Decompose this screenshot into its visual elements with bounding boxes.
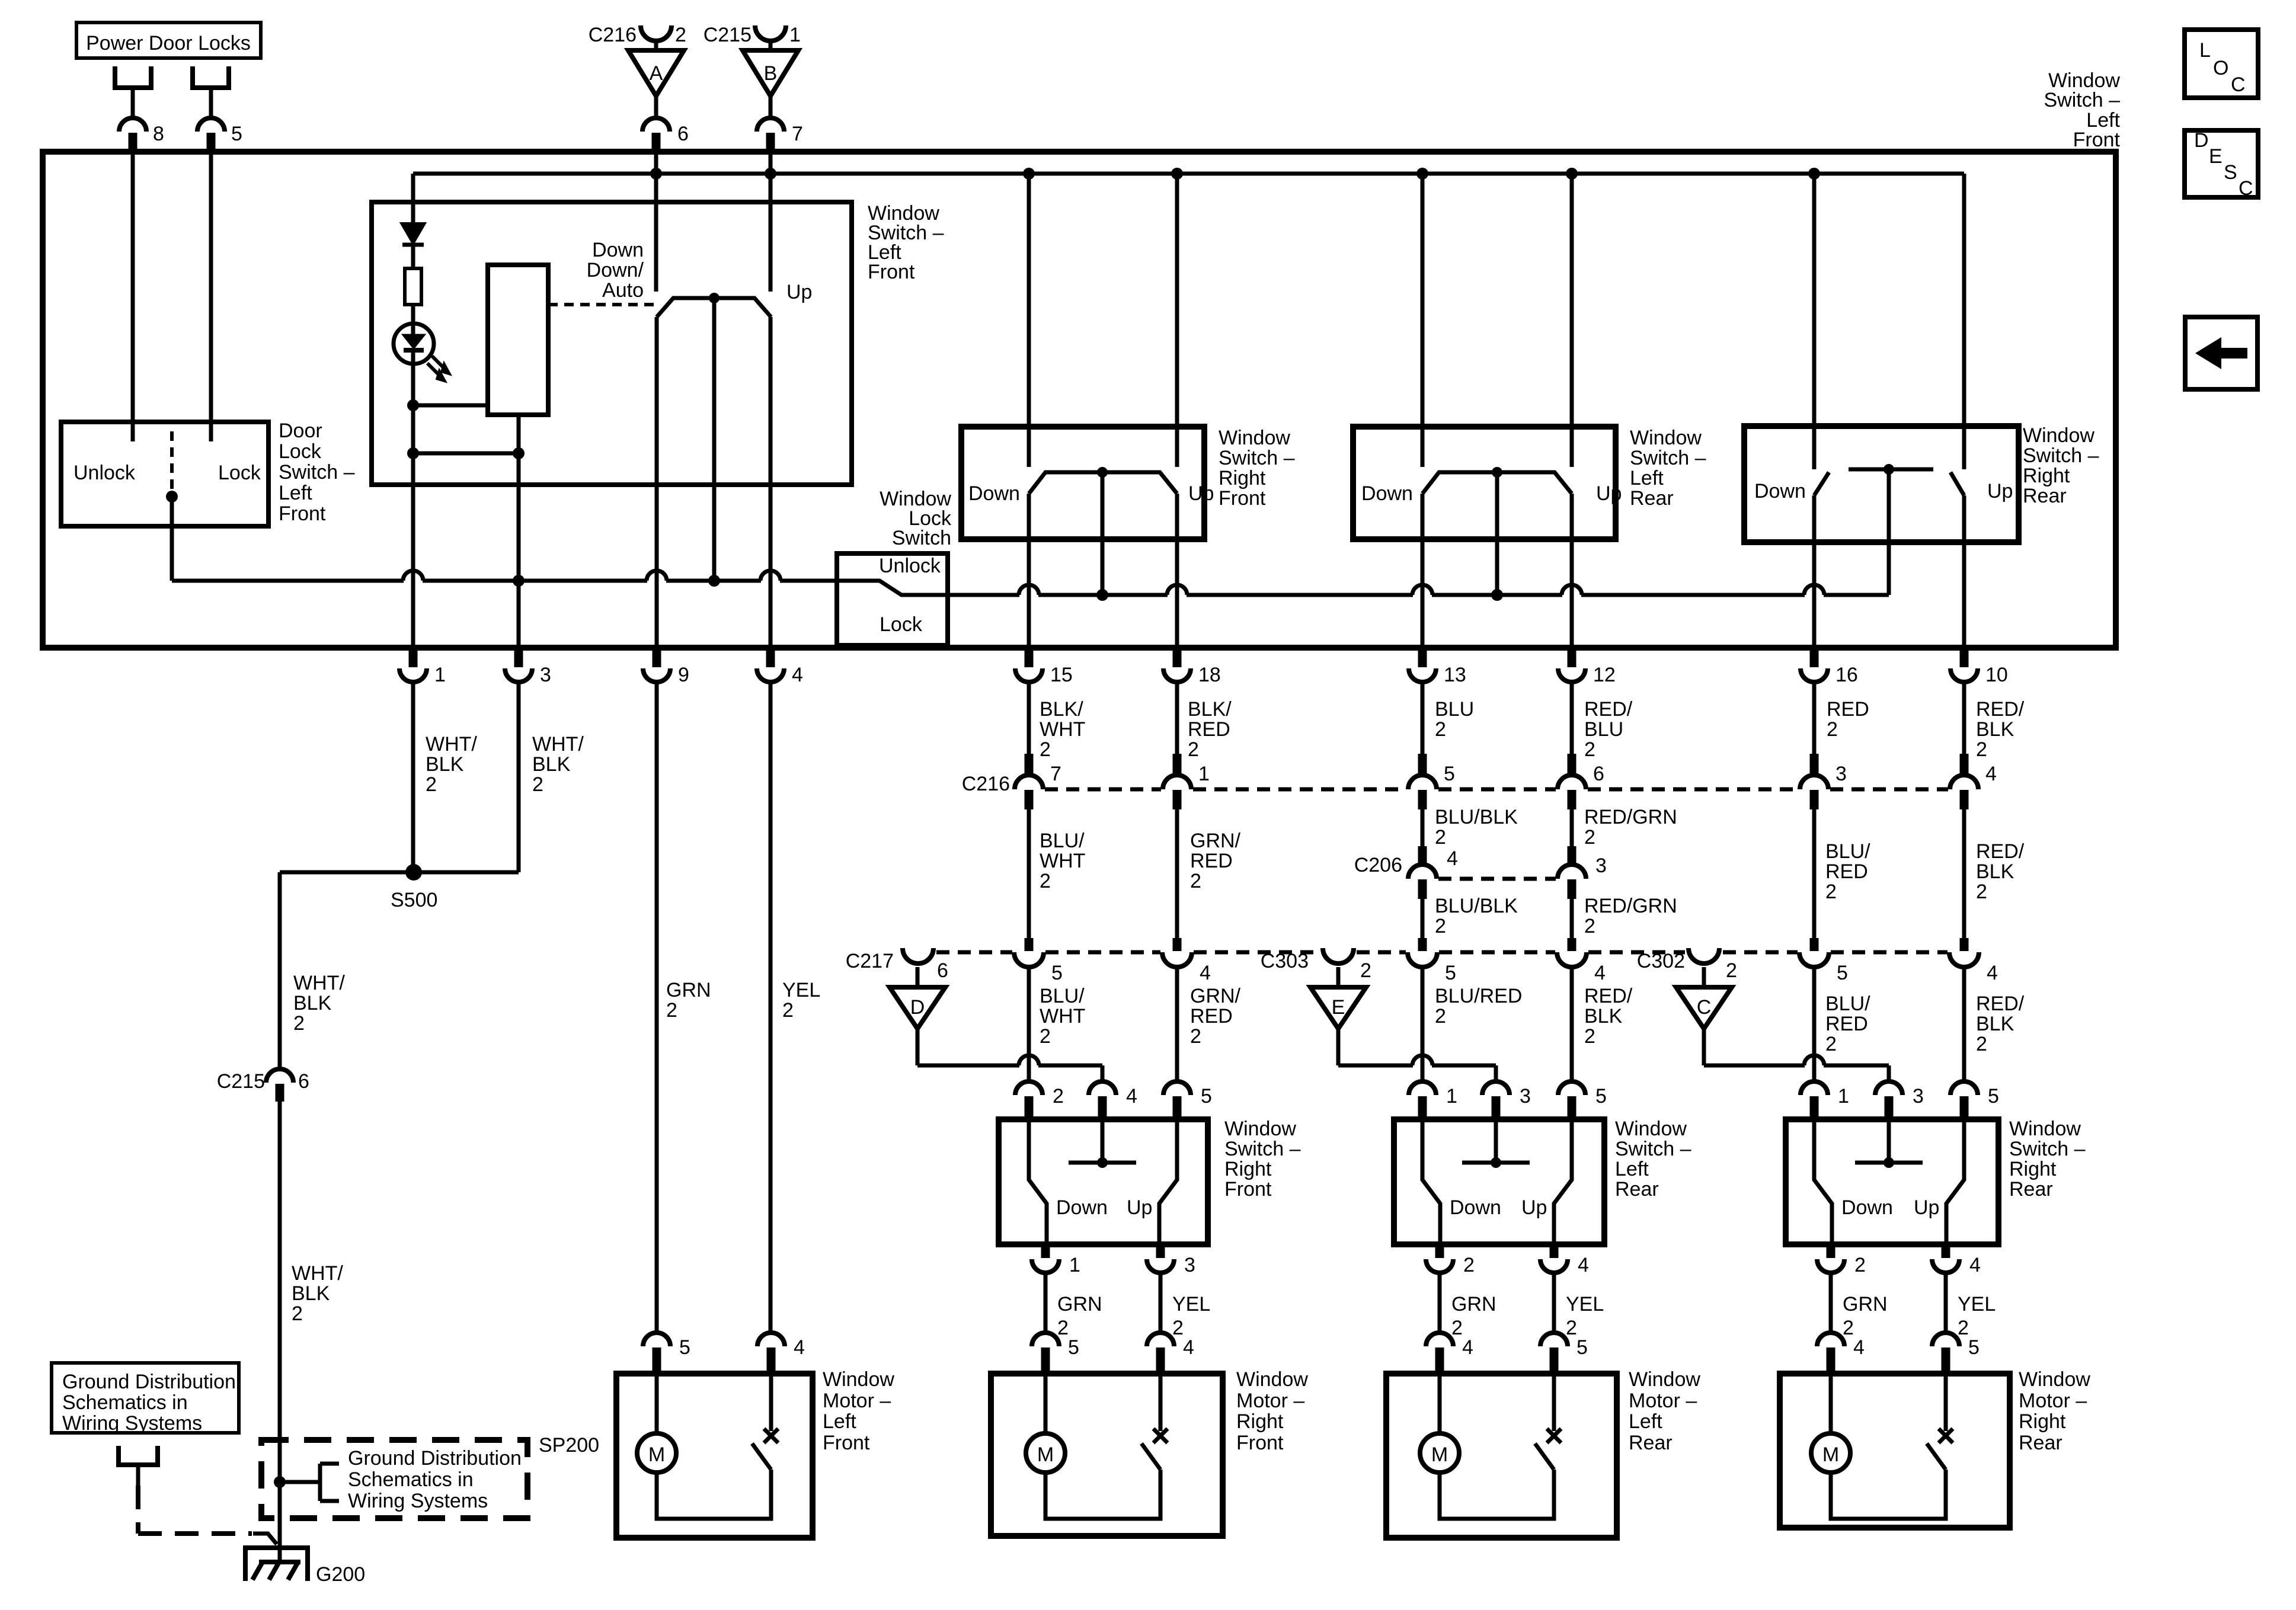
motor feed wire — [1438, 1376, 1442, 1434]
svg-text:Switch –: Switch – — [279, 461, 355, 484]
connector C302 row pin 4 — [1949, 952, 1979, 967]
pin 4 output of door window switch — [1942, 1246, 1950, 1258]
svg-text:Switch –: Switch – — [2009, 1138, 2086, 1160]
limit switch contact X — [1547, 1429, 1561, 1443]
svg-text:2: 2 — [1040, 1025, 1051, 1048]
svg-text:2: 2 — [1190, 1025, 1201, 1048]
svg-text:4: 4 — [1447, 847, 1458, 870]
wire RED/BLU 2 from pin 12 — [1570, 682, 1574, 756]
pin 2 of Right Front window switch — [1015, 1081, 1043, 1095]
svg-text:GRN: GRN — [666, 979, 711, 1001]
RF up contact wire from bus — [1175, 174, 1179, 467]
svg-text:E: E — [1332, 996, 1345, 1019]
svg-text:2: 2 — [1976, 881, 1987, 903]
svg-text:Lock: Lock — [279, 440, 322, 463]
switch up leg — [1946, 1122, 1964, 1246]
inner box of left front window switch — [372, 202, 852, 485]
svg-text:RED/GRN: RED/GRN — [1584, 895, 1677, 917]
svg-text:2: 2 — [1040, 738, 1051, 761]
wire BLK/WHT 2 from pin 15 — [1027, 682, 1031, 756]
off-page triangle E — [1336, 967, 1341, 987]
svg-text:2: 2 — [1584, 915, 1595, 937]
C217/C303/C302 dashed connector line — [936, 950, 1012, 955]
C206 dashed connector line — [1438, 877, 1556, 881]
svg-text:4: 4 — [1853, 1336, 1865, 1359]
box Window Switch - Right Front — [999, 1119, 1208, 1244]
connector C302 pin 2 (to triangle C) — [1689, 948, 1719, 964]
pin 10 of master window switch (bottom) — [1960, 649, 1969, 667]
svg-text:Left: Left — [279, 482, 312, 504]
svg-text:2: 2 — [1190, 870, 1201, 892]
box Window Lock Switch — [837, 553, 948, 645]
window motor pin 4 — [1817, 1333, 1844, 1346]
svg-text:2: 2 — [1435, 915, 1446, 937]
svg-text:12: 12 — [1593, 664, 1616, 686]
off-page triangle B — [743, 50, 798, 96]
svg-text:WHT: WHT — [1040, 850, 1085, 872]
svg-text:Window: Window — [1630, 427, 1702, 449]
svg-text:Left: Left — [1629, 1410, 1662, 1433]
svg-text:GRN/: GRN/ — [1190, 985, 1241, 1007]
connector C303 row pin 4 — [1557, 952, 1587, 967]
LED indicator — [394, 324, 434, 364]
wire triangle D to RF switch common pin 4 — [916, 1029, 920, 1065]
svg-text:BLU/BLK: BLU/BLK — [1435, 806, 1518, 828]
hop over LF up leg — [760, 571, 781, 581]
svg-text:M: M — [648, 1443, 665, 1466]
svg-text:E: E — [2209, 145, 2223, 168]
svg-text:Motor –: Motor – — [1629, 1390, 1697, 1412]
pin 15 of master window switch (bottom) — [1025, 649, 1034, 667]
motor return wire — [1440, 1470, 1554, 1519]
svg-text:2: 2 — [1172, 1317, 1184, 1339]
svg-text:GRN: GRN — [1843, 1293, 1888, 1315]
wire YEL 2 to window motor — [1944, 1273, 1948, 1333]
svg-text:5: 5 — [1595, 1085, 1607, 1108]
svg-text:5: 5 — [679, 1336, 690, 1359]
RR down switch blade — [1814, 472, 1829, 495]
window motor pin 5 — [1540, 1333, 1568, 1346]
box Window Switch - Left Rear — [1394, 1119, 1604, 1244]
box Window Switch - Right Rear — [1786, 1119, 1998, 1244]
switch down leg — [1422, 1122, 1440, 1246]
limit switch contact X — [764, 1429, 778, 1443]
svg-text:1: 1 — [1069, 1254, 1080, 1276]
svg-text:BLU/RED: BLU/RED — [1435, 985, 1522, 1007]
svg-text:4: 4 — [1126, 1085, 1137, 1108]
svg-text:Front: Front — [2073, 129, 2121, 151]
LR rocker bridge — [1422, 472, 1572, 494]
rocker center node — [709, 293, 720, 303]
svg-text:5: 5 — [1576, 1336, 1588, 1359]
hop over LR up leg — [1562, 585, 1582, 595]
svg-text:Front: Front — [1219, 487, 1266, 510]
svg-text:Switch –: Switch – — [2044, 89, 2121, 111]
svg-text:9: 9 — [678, 664, 689, 686]
svg-text:10: 10 — [1985, 664, 2008, 686]
svg-text:2: 2 — [292, 1302, 303, 1325]
bus junction node right-front down wire — [1023, 168, 1035, 180]
svg-text:2: 2 — [1435, 1005, 1446, 1028]
svg-text:Front: Front — [1224, 1178, 1272, 1201]
pin 18 of master window switch (bottom) — [1173, 649, 1182, 667]
pin 3 output of door window switch — [1156, 1246, 1165, 1258]
connector C303 pin 2 (to triangle E) — [1323, 948, 1354, 964]
hop over RF up leg — [1167, 585, 1187, 595]
svg-text:L: L — [2199, 39, 2211, 62]
box Window Switch - Left Front (master switch) — [43, 152, 2116, 648]
LED emission arrows — [432, 356, 445, 369]
svg-text:2: 2 — [1451, 1317, 1463, 1339]
svg-text:S500: S500 — [391, 889, 437, 911]
svg-text:Up: Up — [1521, 1196, 1547, 1219]
svg-text:1: 1 — [1838, 1085, 1849, 1108]
svg-text:Rear: Rear — [2023, 485, 2067, 507]
dashed link from note to ground wire — [136, 1486, 140, 1534]
diode (series) — [402, 224, 424, 242]
RR up contact wire from bus (bus corner) — [1962, 174, 1966, 469]
box Ground Distribution Schematics note (left) — [52, 1363, 239, 1433]
hop over RF down leg — [1019, 585, 1039, 595]
splice SP200 node on ground wire — [274, 1476, 286, 1488]
svg-text:Right: Right — [2009, 1158, 2057, 1180]
svg-text:2: 2 — [1827, 718, 1838, 741]
bus junction node right-rear down wire — [1808, 168, 1820, 180]
junction node RF switch common — [1096, 589, 1108, 601]
svg-text:1: 1 — [789, 24, 801, 46]
svg-text:Lock: Lock — [218, 462, 261, 484]
svg-text:5: 5 — [1201, 1085, 1212, 1108]
svg-text:GRN/: GRN/ — [1190, 830, 1241, 852]
motor return wire — [1831, 1470, 1946, 1519]
limit switch blade — [1535, 1443, 1554, 1470]
splice S500 node — [405, 864, 422, 881]
svg-text:SP200: SP200 — [539, 1434, 599, 1457]
wire BLK/RED 2 from pin 18 — [1175, 682, 1179, 756]
back arrow box — [2185, 317, 2257, 389]
wire from triangle A to pin 6 — [654, 96, 658, 119]
svg-text:D: D — [2194, 129, 2209, 152]
svg-text:YEL: YEL — [1958, 1293, 1996, 1315]
LR down leg to pin 13 — [1421, 494, 1425, 661]
svg-text:4: 4 — [1200, 962, 1211, 984]
off-page triangle A — [628, 50, 684, 96]
connector C215 pin 1 (to other schematic) — [755, 25, 786, 41]
wire BLU/RED 2 to LR door switch pin 1 — [1421, 966, 1425, 1082]
svg-text:BLK: BLK — [293, 992, 332, 1014]
svg-text:2: 2 — [1584, 826, 1595, 849]
svg-text:D: D — [910, 996, 925, 1019]
svg-text:2: 2 — [675, 24, 686, 46]
wire resistor to LED — [411, 305, 415, 335]
wire GRN 2 to window motor — [1044, 1273, 1048, 1333]
motor return wire — [657, 1470, 771, 1519]
window motor pin 4 — [1426, 1333, 1453, 1346]
connector C217 pin 4 — [1162, 952, 1192, 967]
svg-text:Right: Right — [2019, 1410, 2066, 1433]
svg-text:Left: Left — [1615, 1158, 1649, 1180]
window motor left front pin 5 — [643, 1333, 670, 1346]
svg-text:Front: Front — [868, 261, 915, 283]
svg-text:4: 4 — [1183, 1336, 1194, 1359]
svg-text:GRN: GRN — [1451, 1293, 1496, 1315]
switch common contact bar — [1494, 1122, 1498, 1163]
wire WHT/BLK 2 from pin 3 — [517, 682, 521, 872]
RR down contact wire from bus — [1812, 174, 1817, 469]
svg-text:RED: RED — [1190, 1005, 1233, 1028]
motor feed wire — [655, 1376, 659, 1434]
junction node with pin-3 wire — [513, 575, 525, 587]
svg-text:2: 2 — [1976, 738, 1987, 761]
svg-text:Front: Front — [823, 1432, 870, 1454]
svg-text:M: M — [1822, 1443, 1839, 1466]
hop over LF down leg — [647, 571, 667, 581]
svg-text:Switch –: Switch – — [2023, 444, 2099, 467]
svg-text:2: 2 — [1053, 1085, 1064, 1108]
svg-text:2: 2 — [1958, 1317, 1969, 1339]
svg-text:6: 6 — [677, 123, 689, 145]
svg-text:1: 1 — [1446, 1085, 1457, 1108]
svg-text:5: 5 — [1837, 962, 1848, 984]
wire WHT/BLK 2 down to C215 — [278, 872, 282, 1070]
RR up switch blade — [1950, 472, 1964, 495]
C216 dashed connector line — [1045, 788, 1161, 792]
svg-text:3: 3 — [1595, 854, 1607, 877]
bus junction node pin7 wire — [765, 168, 776, 180]
svg-text:4: 4 — [1462, 1336, 1473, 1359]
wire bus to indicator diode — [411, 174, 415, 224]
svg-text:BLU/: BLU/ — [1040, 830, 1085, 852]
svg-text:4: 4 — [792, 664, 803, 686]
connector plug from Power Door Locks pin 8 — [115, 66, 151, 88]
svg-text:Left: Left — [823, 1410, 856, 1433]
wire BLU/BLK 2 (C216-5 to C206-4) — [1421, 809, 1425, 846]
RR down leg to pin 16 — [1812, 495, 1817, 661]
svg-text:BLK: BLK — [1976, 718, 2014, 741]
bus junction node right-front up wire — [1171, 168, 1183, 180]
svg-text:BLU: BLU — [1435, 698, 1474, 721]
junction node with LF switch common — [708, 575, 720, 587]
hop over pin-1 wire — [403, 571, 423, 581]
switch down leg — [1029, 1122, 1047, 1246]
door lock switch actuator (dashed) — [170, 431, 174, 489]
svg-text:2: 2 — [1976, 1033, 1987, 1055]
svg-text:Wiring Systems: Wiring Systems — [62, 1412, 202, 1435]
connector plug from ground distribution note — [119, 1446, 158, 1465]
switch common contact bar — [1101, 1122, 1105, 1163]
svg-text:BLK: BLK — [1976, 1013, 2014, 1035]
LF switch up leg to pin 4 — [769, 317, 773, 661]
svg-text:Right: Right — [1236, 1410, 1284, 1433]
wire LED to junction — [411, 351, 415, 405]
connector C216 pin 6 — [1568, 754, 1576, 775]
motor M — [637, 1433, 676, 1473]
svg-text:3: 3 — [1835, 763, 1847, 785]
svg-text:5: 5 — [1051, 962, 1063, 984]
svg-text:C217: C217 — [846, 950, 894, 972]
connector C216 pin 2 (to other schematic) — [641, 25, 671, 41]
pin 2 output of door window switch — [1827, 1246, 1835, 1258]
pin 5 of Left Rear window switch — [1558, 1081, 1585, 1095]
wire BLU 2 from pin 13 — [1421, 682, 1425, 756]
splice SP200 dashed box — [261, 1440, 527, 1518]
svg-text:Window: Window — [1224, 1118, 1296, 1140]
svg-text:Up: Up — [1914, 1196, 1939, 1219]
svg-text:2: 2 — [1854, 1254, 1866, 1276]
wire RED/BLK 2 to LR door switch pin 5 — [1570, 966, 1574, 1082]
pin 16 of master window switch (bottom) — [1810, 649, 1819, 667]
off-page triangle D — [916, 967, 920, 987]
svg-text:BLU: BLU — [1584, 718, 1623, 741]
RR rocker common bar — [1849, 468, 1933, 472]
svg-text:Schematics in: Schematics in — [348, 1468, 474, 1491]
svg-text:2: 2 — [1360, 959, 1371, 982]
svg-text:WHT/: WHT/ — [426, 733, 477, 756]
wire YEL 2 to window motor — [1159, 1273, 1163, 1333]
splice S500 horizontal wire — [280, 870, 519, 875]
wire module branch down to pin 3 — [517, 453, 521, 661]
wire triangle C to RR switch common pin 3 — [1702, 1029, 1706, 1065]
svg-text:RED/: RED/ — [1976, 840, 2025, 863]
svg-text:Rear: Rear — [2019, 1432, 2062, 1454]
svg-text:5: 5 — [1444, 763, 1455, 785]
svg-text:Power Door Locks: Power Door Locks — [86, 32, 251, 55]
wire junction to control module — [413, 404, 488, 408]
svg-text:Window: Window — [1219, 427, 1290, 449]
LR up leg to pin 12 — [1570, 494, 1574, 661]
svg-text:Switch –: Switch – — [1219, 447, 1295, 469]
svg-text:Schematics in: Schematics in — [62, 1391, 188, 1414]
svg-text:Up: Up — [1987, 480, 2013, 502]
box Window Motor - Left Rear — [1386, 1374, 1617, 1538]
pin 2 output of door window switch — [1435, 1246, 1444, 1258]
svg-text:YEL: YEL — [1566, 1293, 1604, 1315]
svg-text:BLU/: BLU/ — [1825, 840, 1870, 863]
bus junction node left-rear down wire — [1416, 168, 1428, 180]
svg-text:2: 2 — [293, 1012, 305, 1035]
svg-text:Motor –: Motor – — [2019, 1390, 2087, 1412]
svg-text:7: 7 — [792, 123, 803, 145]
svg-text:4: 4 — [1969, 1254, 1981, 1276]
pin 1 of Left Rear window switch — [1409, 1081, 1436, 1095]
resistor (LED dropping) — [405, 268, 421, 305]
svg-text:O: O — [2213, 57, 2228, 79]
svg-text:RED: RED — [1825, 860, 1868, 883]
hop over BLU/RED wire — [1804, 1055, 1824, 1065]
LF switch common wire to door lock line — [712, 298, 717, 581]
wire pin 5 to door lock switch lock contact — [209, 155, 213, 441]
svg-text:Left: Left — [1630, 467, 1664, 489]
svg-text:Front: Front — [279, 502, 326, 525]
LF window switch rocker bridge — [657, 298, 771, 317]
svg-text:5: 5 — [1445, 962, 1456, 984]
wire diode to resistor — [411, 245, 415, 268]
connector plug from Power Door Locks pin 5 — [193, 66, 229, 88]
pin 4 of master window switch (bottom) — [766, 649, 775, 667]
svg-text:C215: C215 — [703, 24, 752, 46]
connector C216 pin 3 — [1810, 754, 1819, 775]
svg-text:YEL: YEL — [782, 979, 820, 1001]
svg-text:A: A — [650, 62, 663, 85]
svg-text:Rear: Rear — [1630, 487, 1674, 510]
limit switch feed wire — [769, 1376, 773, 1431]
svg-text:Up: Up — [1127, 1196, 1152, 1219]
pin 4 of Right Front window switch — [1089, 1081, 1116, 1095]
dashed actuator link control module to switch (Auto) — [548, 303, 654, 306]
RF up leg to pin 18 — [1175, 494, 1179, 661]
wire YEL 2 to window motor — [1552, 1273, 1556, 1333]
svg-text:6: 6 — [1593, 763, 1604, 785]
svg-text:Wiring Systems: Wiring Systems — [348, 1490, 488, 1512]
svg-text:RED/: RED/ — [1584, 985, 1633, 1007]
RF down contact wire from bus — [1027, 174, 1031, 467]
svg-text:Rear: Rear — [2009, 1178, 2053, 1201]
wire GRN/RED 2 (C216-1 to C217-4) — [1175, 809, 1179, 938]
svg-text:Up: Up — [786, 281, 812, 303]
pin 1 of Right Rear window switch — [1801, 1081, 1828, 1095]
limit switch feed wire — [1552, 1376, 1556, 1431]
limit switch blade — [1141, 1443, 1160, 1470]
svg-text:YEL: YEL — [1172, 1293, 1210, 1315]
unlock bus to right-front/left-rear/right-rear switches — [948, 593, 1019, 597]
supply bus wire inside master switch — [413, 172, 1964, 176]
svg-text:Unlock: Unlock — [879, 555, 941, 577]
svg-text:2: 2 — [1726, 959, 1737, 982]
svg-text:BLK: BLK — [426, 753, 464, 776]
svg-text:Down: Down — [1841, 1196, 1893, 1219]
pin 9 of master window switch (bottom) — [653, 649, 661, 667]
svg-text:2: 2 — [666, 999, 677, 1022]
svg-text:13: 13 — [1444, 664, 1466, 686]
junction node LED branch — [407, 447, 419, 459]
svg-text:Rear: Rear — [1615, 1178, 1659, 1201]
wire RED/BLK 2 (C216-4 to C302 row) — [1962, 809, 1966, 938]
limit switch contact X — [1153, 1429, 1168, 1443]
svg-text:S: S — [2224, 161, 2237, 184]
svg-text:2: 2 — [1057, 1317, 1069, 1339]
svg-text:BLK/: BLK/ — [1188, 698, 1232, 721]
svg-text:4: 4 — [1985, 763, 1997, 785]
hop over LR down leg — [1412, 585, 1432, 595]
svg-text:Down/: Down/ — [587, 259, 644, 281]
svg-text:Switch –: Switch – — [1224, 1138, 1301, 1160]
svg-text:RED: RED — [1188, 718, 1230, 741]
svg-text:5: 5 — [231, 123, 242, 145]
window motor pin 4 — [1147, 1333, 1174, 1346]
connector C216 pin 4 — [1960, 754, 1969, 775]
svg-text:Window: Window — [2023, 424, 2094, 447]
junction node LR switch common — [1491, 589, 1503, 601]
switch common node — [1491, 1157, 1501, 1168]
svg-text:RED: RED — [1827, 698, 1869, 721]
svg-text:Right: Right — [2023, 465, 2070, 487]
wire GRN 2 from pin 9 to LF motor — [655, 682, 659, 1333]
svg-text:2: 2 — [1825, 881, 1837, 903]
svg-text:Down: Down — [1450, 1196, 1501, 1219]
svg-text:Right: Right — [1219, 467, 1266, 489]
svg-text:Auto: Auto — [602, 279, 644, 302]
wire pin 7 / bus to LF switch up contact — [769, 155, 773, 292]
svg-text:2: 2 — [1584, 738, 1595, 761]
svg-text:M: M — [1037, 1443, 1054, 1466]
RR up leg to pin 10 — [1962, 495, 1966, 661]
svg-text:2: 2 — [426, 773, 437, 796]
door lock switch pole node — [166, 491, 178, 502]
svg-text:C: C — [1697, 996, 1712, 1019]
wire YEL 2 from pin 4 to LF motor — [769, 682, 773, 1333]
switch down leg — [1814, 1122, 1832, 1246]
svg-text:2: 2 — [1843, 1317, 1854, 1339]
